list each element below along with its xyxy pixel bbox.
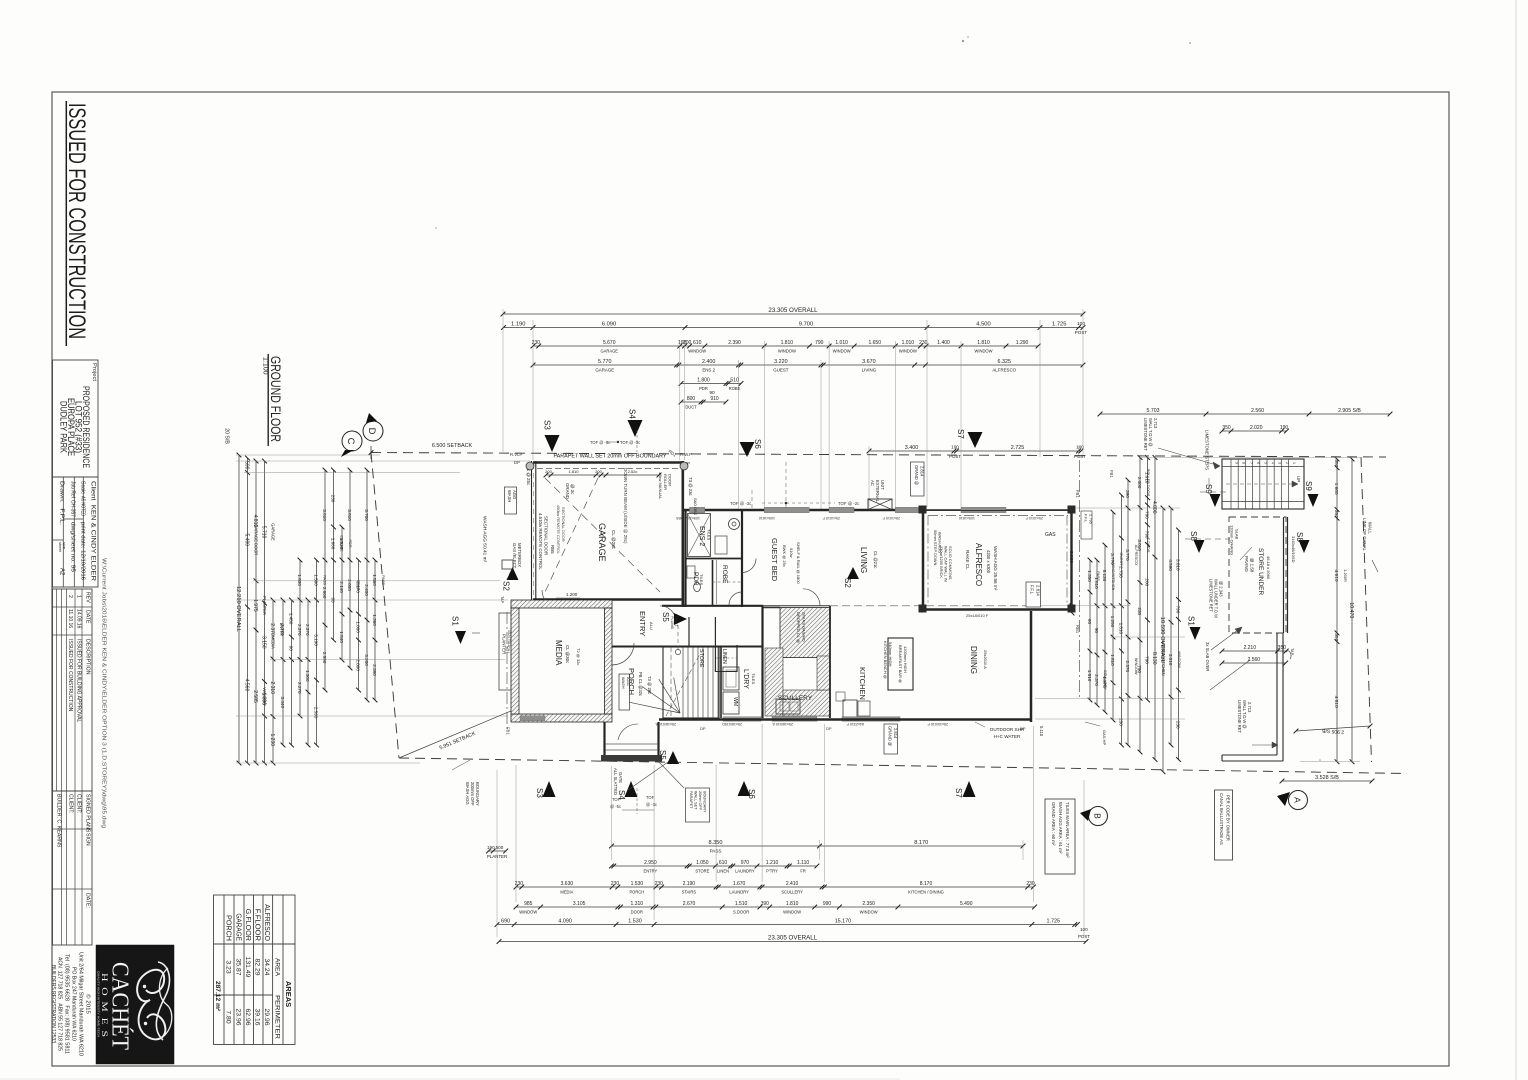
section marker S8 left — [1194, 540, 1205, 553]
svg-text:AREAS: AREAS — [284, 981, 293, 1007]
svg-text:2.590: 2.590 — [322, 652, 327, 664]
svg-text:CACHÉT: CACHÉT — [107, 962, 133, 1050]
svg-text:1.670: 1.670 — [1102, 676, 1107, 688]
svg-text:2.713: 2.713 — [1247, 702, 1252, 713]
svg-text:287.12 m²: 287.12 m² — [214, 981, 221, 1012]
ens2 pdr robe walls — [684, 510, 686, 607]
svg-text:LAUNDRY: LAUNDRY — [735, 868, 755, 873]
svg-text:985: 985 — [524, 901, 533, 907]
svg-text:1.810: 1.810 — [1110, 654, 1115, 666]
left chain 5 — [272, 600, 274, 763]
svg-text:62.96: 62.96 — [244, 1008, 251, 1025]
section marker S6 bottom — [738, 781, 751, 796]
svg-text:2.670: 2.670 — [683, 901, 696, 907]
ens2 fixtures — [715, 536, 727, 554]
top dim chain 6 duct — [681, 401, 726, 403]
svg-text:230: 230 — [1118, 718, 1123, 726]
svg-text:WINDOW: WINDOW — [833, 348, 851, 353]
svg-text:BREAKFAST BAR @: BREAKFAST BAR @ — [898, 645, 903, 683]
svg-text:WINDOW: WINDOW — [899, 348, 917, 353]
CACHET HOMES logo — [96, 945, 174, 1064]
svg-text:1.400: 1.400 — [937, 340, 950, 346]
svg-text:FB1: FB1 — [1109, 470, 1114, 478]
boundary north — [371, 453, 1386, 458]
section marker S1 right — [1190, 627, 1201, 640]
svg-text:2: 2 — [67, 595, 73, 598]
svg-text:910w: 910w — [789, 548, 794, 558]
svg-text:200: 200 — [1144, 578, 1149, 586]
svg-text:KITCHEN BENCH @: KITCHEN BENCH @ — [883, 641, 888, 679]
store under dashed box — [1229, 517, 1286, 633]
svg-text:PB CL @32c: PB CL @32c — [638, 672, 643, 696]
svg-text:PLUMB: PLUMB — [670, 616, 674, 630]
svg-text:990: 990 — [823, 901, 832, 907]
svg-text:1.510: 1.510 — [735, 901, 748, 907]
store under dims — [1222, 650, 1286, 652]
svg-text:LAUNDRY: LAUNDRY — [729, 889, 749, 894]
bottom chain overall — [499, 941, 1086, 943]
svg-text:8.130: 8.130 — [1151, 652, 1157, 665]
svg-text:ENS 2: ENS 2 — [702, 367, 715, 372]
svg-text:CL @28c: CL @28c — [611, 530, 616, 550]
svg-text:1: 1 — [1292, 462, 1296, 464]
dining right wall — [1030, 611, 1033, 722]
section marker S9 right — [1308, 494, 1319, 507]
svg-text:29.96: 29.96 — [263, 1008, 270, 1025]
svg-text:SCULLERY: SCULLERY — [781, 889, 803, 894]
svg-text:BWK @ 25c: BWK @ 25c — [782, 545, 787, 567]
svg-text:BUILDERS REGISTRATION 12533: BUILDERS REGISTRATION 12533 — [50, 965, 56, 1043]
svg-text:1.810: 1.810 — [786, 901, 799, 907]
svg-text:100: 100 — [951, 445, 959, 450]
project box — [53, 360, 99, 477]
svg-text:STORE: STORE — [695, 868, 709, 873]
svg-text:T3 @ 23c: T3 @ 23c — [688, 477, 693, 497]
top wall windows — [690, 507, 705, 512]
svg-text:ALFRESCO: ALFRESCO — [974, 543, 983, 586]
svg-text:1.840: 1.840 — [339, 631, 344, 643]
svg-text:5.670: 5.670 — [603, 340, 616, 346]
svg-text:84x2310 F: 84x2310 F — [846, 722, 864, 726]
svg-text:TOF: TOF — [612, 797, 621, 802]
svg-text:F.F.L: F.F.L — [1030, 585, 1035, 595]
svg-text:P'TRY: P'TRY — [766, 868, 778, 873]
svg-text:S1: S1 — [451, 616, 460, 626]
svg-text:200mm OFF: 200mm OFF — [470, 782, 475, 806]
stairs — [663, 647, 719, 718]
svg-text:ALL SLATTED: ALL SLATTED — [613, 768, 618, 795]
bottom chain 4 — [516, 906, 1035, 908]
right extension lines — [1076, 507, 1180, 509]
svg-text:DP: DP — [1020, 726, 1026, 731]
svg-text:5.710: 5.710 — [260, 526, 266, 539]
svg-text:D: D — [366, 428, 377, 435]
svg-text:2.725: 2.725 — [1011, 445, 1025, 451]
svg-text:DOOR: DOOR — [631, 909, 643, 914]
svg-text:S2: S2 — [502, 581, 511, 591]
svg-text:230: 230 — [611, 881, 620, 887]
svg-text:6.090: 6.090 — [602, 321, 617, 327]
svg-text:4.610: 4.610 — [1333, 570, 1339, 582]
svg-text:2.400: 2.400 — [364, 584, 369, 596]
porch steps — [605, 743, 658, 745]
svg-text:39.16: 39.16 — [254, 1008, 261, 1025]
svg-text:230: 230 — [330, 495, 335, 503]
svg-text:190: 190 — [1280, 425, 1289, 431]
svg-text:2.410: 2.410 — [786, 881, 799, 887]
section marker S4 bottom — [625, 781, 638, 797]
svg-text:25x18/015D: 25x18/015D — [722, 722, 742, 726]
svg-text:230: 230 — [655, 881, 664, 887]
svg-text:8.170: 8.170 — [920, 881, 933, 887]
svg-text:R.W.P: R.W.P — [680, 452, 692, 457]
svg-text:@ 2.343: @ 2.343 — [1219, 581, 1224, 597]
bottom chain pass — [612, 845, 1024, 847]
svg-text:PERIMETER: PERIMETER — [273, 995, 280, 1039]
svg-text:510: 510 — [730, 377, 739, 383]
svg-text:2.370: 2.370 — [1094, 674, 1099, 686]
svg-text:16kw MANUAL: 16kw MANUAL — [658, 472, 663, 500]
svg-text:2.190: 2.190 — [683, 881, 696, 887]
right chain overall 10.590 — [1162, 508, 1164, 772]
svg-text:GUEST BED: GUEST BED — [770, 538, 779, 582]
top dim chain overall 23.305 — [503, 313, 1083, 315]
bottom wall — [659, 718, 1031, 721]
svg-text:790: 790 — [1137, 665, 1142, 673]
svg-text:3.700: 3.700 — [364, 509, 369, 521]
svg-text:FB1: FB1 — [506, 646, 511, 654]
svg-text:@ 1.58: @ 1.58 — [1250, 558, 1255, 573]
setback 5.951 leader — [399, 708, 518, 758]
svg-text:2.560: 2.560 — [1248, 657, 1261, 663]
section marker S4 top — [628, 420, 643, 437]
svg-text:1.810: 1.810 — [1118, 623, 1123, 635]
svg-text:25x2010 A: 25x2010 A — [983, 650, 988, 669]
svg-text:DOWN TURN BEAM (U/SIDE @ 28c): DOWN TURN BEAM (U/SIDE @ 28c) — [623, 468, 628, 544]
svg-text:ROBE: ROBE — [729, 386, 741, 391]
ffl boxes — [1026, 582, 1041, 607]
svg-text:GUEST: GUEST — [773, 367, 788, 372]
svg-text:1.725: 1.725 — [1052, 321, 1067, 327]
svg-text:25x1010 F: 25x1010 F — [822, 516, 840, 520]
svg-text:12.210 OVERALL: 12.210 OVERALL — [235, 586, 241, 633]
svg-text:800: 800 — [687, 396, 696, 402]
svg-text:590: 590 — [243, 461, 249, 470]
svg-text:LIVING: LIVING — [859, 547, 868, 573]
revisions table — [53, 589, 93, 791]
svg-text:WALL T.O.W @: WALL T.O.W @ — [1242, 700, 1247, 729]
svg-text:LIMESTONE RET: LIMESTONE RET — [1143, 418, 1148, 451]
svg-text:1.725: 1.725 — [1047, 918, 1061, 924]
svg-text:SIGNED PLANS: SIGNED PLANS — [85, 794, 91, 833]
svg-text:S4: S4 — [628, 409, 637, 419]
svg-text:WINDOW: WINDOW — [688, 348, 706, 353]
svg-text:23.96: 23.96 — [234, 1008, 241, 1025]
svg-text:1.975: 1.975 — [252, 599, 258, 612]
svg-text:3x SLAB OVER: 3x SLAB OVER — [1205, 642, 1210, 671]
svg-text:W:\Current Jobs\2016\ELDER KEN: W:\Current Jobs\2016\ELDER KEN & CINDY\E… — [101, 558, 107, 828]
svg-text:S7: S7 — [954, 788, 963, 798]
svg-text:1.810: 1.810 — [1087, 670, 1092, 682]
svg-text:10.590 OVERALL: 10.590 OVERALL — [1159, 617, 1165, 664]
signed plans table — [53, 791, 93, 945]
svg-text:S9: S9 — [1304, 481, 1313, 491]
left chain 4 — [264, 461, 266, 763]
svg-text:1.200: 1.200 — [566, 592, 578, 597]
svg-text:1.050: 1.050 — [696, 860, 709, 866]
svg-text:WALL T.O.W @: WALL T.O.W @ — [1148, 418, 1153, 447]
svg-text:35.87: 35.87 — [234, 958, 241, 975]
svg-text:STORE: STORE — [698, 649, 704, 668]
svg-text:Unit 2/64 Milgar Street Mandur: Unit 2/64 Milgar Street Mandurah WA 6210 — [77, 952, 83, 1056]
svg-text:5.110: 5.110 — [1039, 726, 1044, 737]
svg-text:G.FLOOR: G.FLOOR — [244, 909, 251, 941]
svg-text:1.610: 1.610 — [1144, 472, 1149, 484]
svg-text:25x18/010 F: 25x18/010 F — [966, 613, 989, 618]
guest/pass wall — [662, 605, 763, 607]
svg-text:AREA: AREA — [273, 958, 280, 977]
section marker S2 right — [847, 567, 859, 579]
svg-text:GRAND AREA : 60 m²: GRAND AREA : 60 m² — [1051, 802, 1056, 846]
svg-text:1.810: 1.810 — [1094, 577, 1099, 589]
svg-text:SLAB: SLAB — [1235, 529, 1240, 540]
svg-text:TOF @ -2c: TOF @ -2c — [838, 501, 860, 506]
svg-text:90: 90 — [1094, 628, 1099, 634]
planter — [499, 613, 511, 690]
svg-text:GROUND FLOOR: GROUND FLOOR — [268, 356, 284, 442]
svg-text:6.325: 6.325 — [998, 359, 1012, 365]
svg-text:WINDOW: WINDOW — [778, 348, 796, 353]
svg-text:3.670: 3.670 — [862, 359, 876, 365]
svg-text:WASH: WASH — [621, 677, 626, 689]
svg-text:2.713: 2.713 — [1153, 418, 1158, 429]
svg-text:14.09.16: 14.09.16 — [75, 609, 81, 629]
svg-text:1200mm HIGH: 1200mm HIGH — [903, 646, 908, 673]
svg-text:TILES: TILES — [707, 529, 712, 540]
left chain garage door — [247, 458, 249, 763]
svg-text:WINDOW: WINDOW — [1177, 651, 1181, 668]
svg-text:BOUNDARY: BOUNDARY — [703, 791, 707, 813]
kitchen window — [842, 717, 900, 721]
svg-text:3.105: 3.105 — [573, 901, 586, 907]
section marker S8 right — [1299, 540, 1310, 553]
svg-text:610: 610 — [719, 860, 728, 866]
svg-text:L'DRY: L'DRY — [742, 669, 749, 689]
areas table — [214, 895, 296, 1045]
garage door swing dashes — [545, 478, 660, 592]
svg-text:2.370: 2.370 — [297, 624, 302, 636]
svg-text:WINDOW: WINDOW — [975, 348, 993, 353]
svg-text:2.370: 2.370 — [269, 623, 275, 636]
slanted SB dim — [1296, 726, 1370, 731]
svg-text:WINDOW: WINDOW — [519, 909, 537, 914]
svg-text:GATE: GATE — [618, 772, 623, 783]
svg-text:POST: POST — [1074, 454, 1086, 459]
svg-text:2.52c: 2.52c — [628, 469, 638, 474]
svg-text:3.400: 3.400 — [905, 445, 919, 451]
svg-text:B: B — [1093, 813, 1103, 819]
L retaining wall bottom right — [1276, 633, 1278, 755]
svg-text:S6: S6 — [753, 439, 762, 449]
svg-text:LIMESTONE RET: LIMESTONE RET — [1237, 700, 1242, 733]
svg-text:Drawn: F.P.L.: Drawn: F.P.L. — [59, 481, 65, 525]
svg-text:ENTRY: ENTRY — [638, 611, 647, 636]
bottom chain 2 — [612, 865, 817, 867]
svg-text:1.190: 1.190 — [511, 321, 526, 327]
svg-text:FB1: FB1 — [506, 727, 511, 735]
svg-text:200: 200 — [683, 340, 692, 346]
detail circle B — [1089, 807, 1108, 826]
svg-text:Scale: Scale — [80, 481, 86, 494]
svg-text:4200 x 6300: 4200 x 6300 — [986, 550, 991, 574]
svg-text:190: 190 — [487, 845, 495, 850]
left chain 3 — [255, 461, 257, 763]
svg-text:S5: S5 — [661, 612, 670, 622]
svg-text:ROBE: ROBE — [721, 565, 728, 584]
scullery bench hatch — [765, 648, 783, 716]
svg-text:350: 350 — [1222, 425, 1231, 431]
grand area note box — [1045, 799, 1075, 874]
svg-text:4.810: 4.810 — [1333, 696, 1339, 708]
svg-text:2.600: 2.600 — [322, 587, 327, 599]
svg-text:WINDOW: WINDOW — [860, 909, 878, 914]
svg-text:AC: AC — [870, 480, 875, 486]
media window — [520, 716, 545, 721]
svg-text:ALFRESCO: ALFRESCO — [992, 367, 1016, 372]
svg-text:8.350: 8.350 — [709, 840, 723, 846]
svg-text:dwg/sheet no. 95: dwg/sheet no. 95 — [70, 522, 76, 572]
svg-text:90: 90 — [288, 646, 293, 652]
svg-text:25x1010 F: 25x1010 F — [1025, 516, 1043, 520]
wash agg box left — [505, 487, 517, 514]
svg-text:25x1010 F: 25x1010 F — [882, 516, 900, 520]
svg-text:WASH AGG AREA : 61 m²: WASH AGG AREA : 61 m² — [1058, 802, 1063, 854]
svg-text:2.950: 2.950 — [644, 860, 657, 866]
svg-text:790: 790 — [1144, 531, 1149, 539]
svg-text:3.528 S/B: 3.528 S/B — [1315, 775, 1339, 781]
svg-text:5.400: 5.400 — [243, 534, 249, 547]
detail circle C — [342, 431, 362, 451]
svg-text:50mm STEP DOWN: 50mm STEP DOWN — [933, 530, 938, 566]
door arcs — [742, 559, 756, 573]
svg-text:GRAND: GRAND — [565, 483, 570, 499]
store — [688, 617, 690, 647]
svg-text:3.770: 3.770 — [1110, 553, 1115, 565]
svg-text:3.610: 3.610 — [347, 509, 352, 521]
svg-text:GAS HP: GAS HP — [1102, 730, 1107, 745]
svg-text:390: 390 — [1125, 490, 1130, 498]
svg-text:TILES: TILES — [751, 673, 756, 684]
svg-text:2.585: 2.585 — [252, 690, 258, 703]
svg-text:350: 350 — [1333, 510, 1339, 518]
svg-text:GARAGE: GARAGE — [600, 348, 618, 353]
svg-text:SCULLERY: SCULLERY — [778, 695, 813, 702]
svg-text:DINING: DINING — [969, 646, 978, 674]
svg-text:DATE:: DATE: — [85, 893, 91, 908]
svg-text:7.80: 7.80 — [224, 1010, 231, 1023]
svg-text:1.010: 1.010 — [835, 340, 848, 346]
svg-text:790: 790 — [815, 340, 824, 346]
svg-text:R.VLP: R.VLP — [510, 452, 523, 457]
section marker S9 left — [1210, 494, 1221, 507]
svg-text:1.200R: 1.200R — [1343, 569, 1348, 582]
svg-text:3.010: 3.010 — [1137, 539, 1142, 551]
svg-text:PAVING: PAVING — [1244, 556, 1249, 573]
svg-text:2.000: 2.000 — [355, 659, 360, 671]
svg-text:230: 230 — [1175, 721, 1180, 729]
svg-text:WINDOW: WINDOW — [783, 909, 801, 914]
store under retaining wall — [1283, 517, 1285, 633]
svg-text:610: 610 — [693, 340, 702, 346]
svg-text:METERBOX: METERBOX — [517, 543, 522, 567]
svg-text:2.590: 2.590 — [313, 707, 318, 719]
svg-text:ENS 2: ENS 2 — [698, 526, 705, 546]
scan specks — [962, 40, 964, 42]
boundary south — [399, 758, 1407, 774]
svg-text:@ -5c: @ -5c — [610, 804, 621, 809]
section marker S3 bottom — [543, 781, 556, 797]
svg-text:1.810: 1.810 — [568, 469, 579, 474]
section marker S5 mid — [674, 613, 687, 625]
svg-text:MEDIA: MEDIA — [560, 889, 573, 894]
far right chain — [1336, 459, 1338, 762]
right chains — [1071, 508, 1073, 613]
svg-text:DOOR: DOOR — [668, 474, 673, 486]
svg-text:1.670: 1.670 — [733, 881, 746, 887]
svg-text:SECTIONAL DOOR: SECTIONAL DOOR — [544, 516, 549, 555]
svg-text:3.010: 3.010 — [1175, 559, 1180, 571]
svg-text:WASH AGG 50.41 m²: WASH AGG 50.41 m² — [482, 516, 488, 563]
ens2 shower — [688, 514, 711, 557]
svg-text:PO Box 247 Mandurah WA 6210: PO Box 247 Mandurah WA 6210 — [70, 967, 76, 1041]
svg-text:4.560: 4.560 — [243, 679, 249, 692]
svg-text:STORE UNDER: STORE UNDER — [1257, 548, 1264, 595]
garage inner dim row — [546, 474, 659, 476]
planter mini chain — [489, 850, 506, 852]
svg-text:1.530: 1.530 — [628, 918, 642, 924]
svg-text:DUCT: DUCT — [685, 404, 697, 409]
svg-text:S5: S5 — [658, 750, 667, 760]
top right chain alfresco posts — [869, 450, 1081, 452]
svg-text:2.370: 2.370 — [280, 624, 285, 636]
svg-text:PER CODE BY OWNER: PER CODE BY OWNER — [1226, 795, 1231, 841]
svg-text:© 2015: © 2015 — [84, 994, 91, 1014]
svg-text:LIVING: LIVING — [862, 367, 877, 372]
garage walls — [533, 461, 684, 464]
svg-text:KITCHEN / DINING: KITCHEN / DINING — [908, 889, 944, 894]
section marker S1 left — [455, 631, 466, 644]
svg-text:DUCT: DUCT — [674, 616, 678, 627]
downpipe symbols — [526, 462, 534, 470]
svg-text:DP: DP — [700, 726, 706, 731]
svg-text:8.170: 8.170 — [914, 840, 928, 846]
svg-text:GAS: GAS — [1045, 532, 1056, 538]
svg-text:2.000: 2.000 — [1137, 477, 1142, 489]
svg-text:DESCRIPTION: DESCRIPTION — [85, 639, 91, 675]
top right chains — [1100, 413, 1390, 415]
svg-text:GARAGE: GARAGE — [597, 523, 607, 562]
svg-text:GRAND @: GRAND @ — [914, 465, 919, 485]
svg-text:5.770: 5.770 — [598, 359, 612, 365]
svg-text:2.170: 2.170 — [355, 581, 360, 593]
svg-text:EXTERNAL: EXTERNAL — [875, 480, 880, 503]
boundary east — [1361, 457, 1372, 762]
svg-text:3.010: 3.010 — [1168, 654, 1173, 666]
svg-text:3.220: 3.220 — [774, 359, 788, 365]
svg-text:LIMESTONE RET: LIMESTONE RET — [1209, 579, 1214, 612]
section marker S5 bottom — [667, 751, 679, 764]
svg-text:105x1810: 105x1810 — [959, 516, 975, 520]
